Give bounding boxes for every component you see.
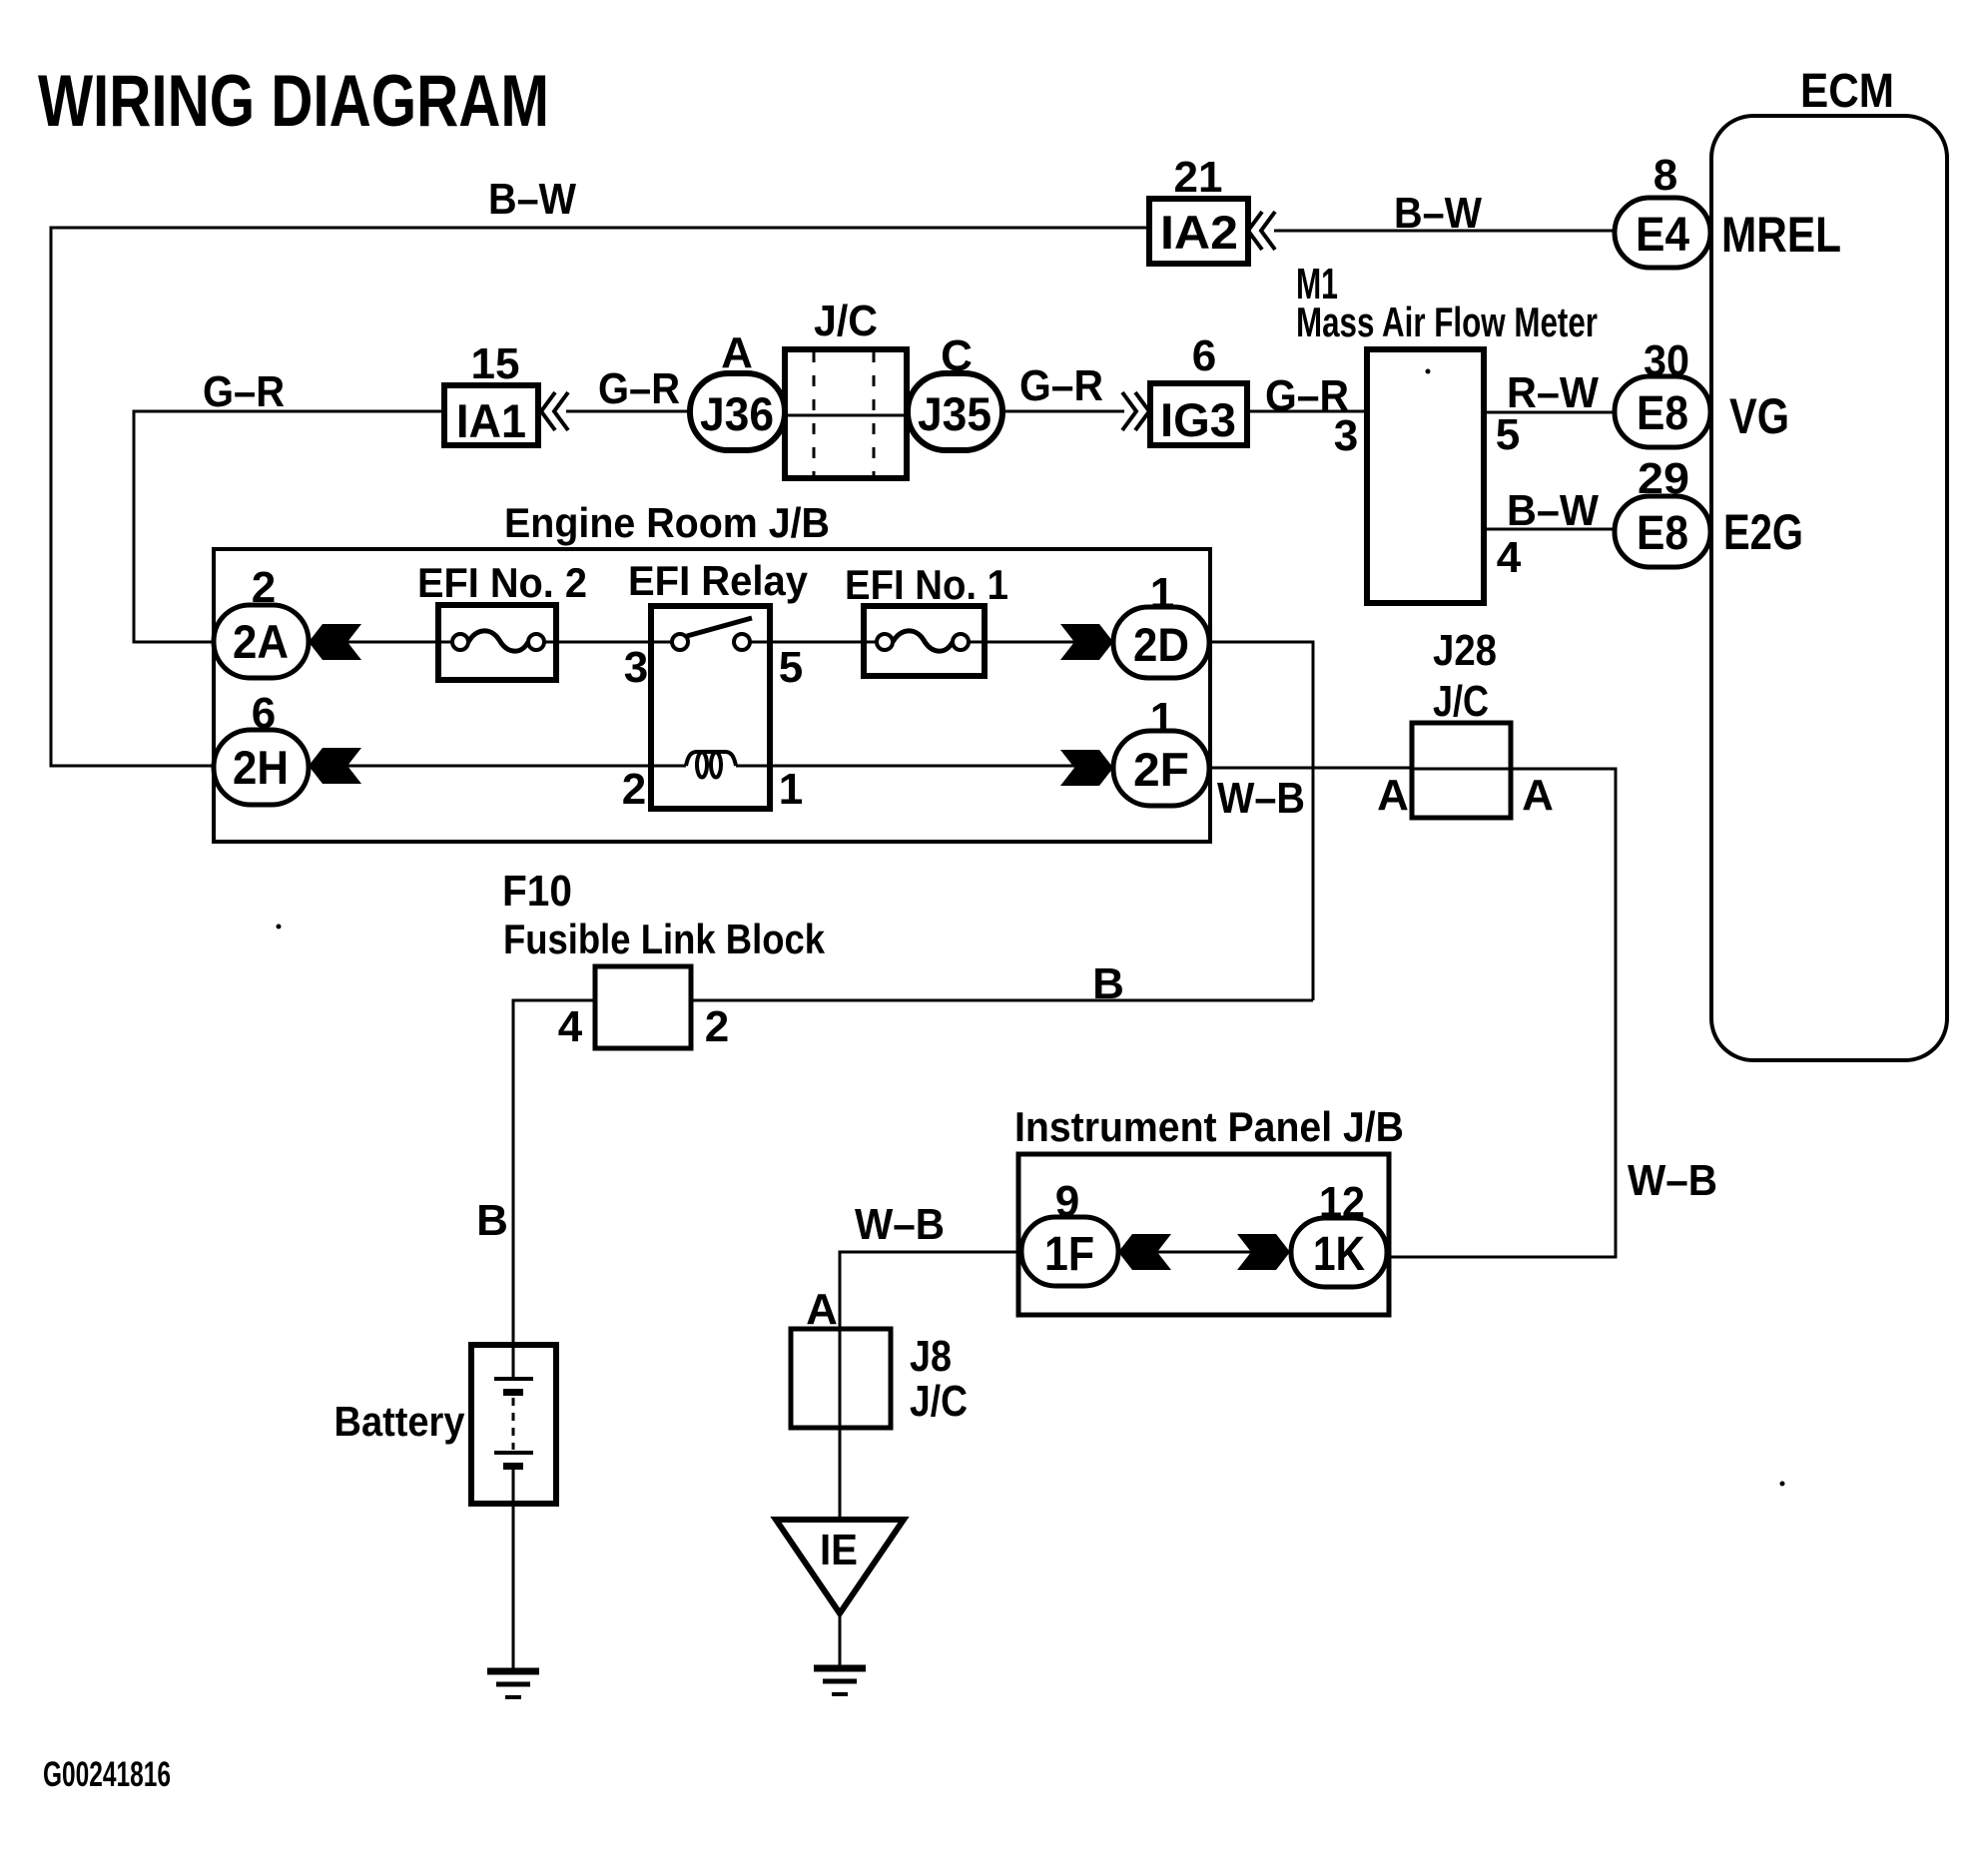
svg-text:Instrument Panel J/B: Instrument Panel J/B (1014, 1103, 1404, 1150)
svg-text:2: 2 (622, 765, 646, 814)
svg-text:Engine Room J/B: Engine Room J/B (504, 499, 830, 546)
svg-text:G–R: G–R (203, 367, 285, 416)
svg-text:IE: IE (820, 1526, 858, 1574)
svg-text:F10: F10 (502, 867, 572, 916)
svg-text:2F: 2F (1133, 743, 1189, 796)
svg-text:EFI No. 2: EFI No. 2 (417, 559, 587, 606)
svg-text:J/C: J/C (814, 297, 878, 345)
svg-text:MREL: MREL (1721, 207, 1841, 263)
svg-text:15: 15 (471, 339, 520, 388)
svg-text:C: C (941, 331, 973, 380)
svg-text:IG3: IG3 (1160, 393, 1236, 446)
svg-text:12: 12 (1319, 1178, 1365, 1227)
svg-text:2D: 2D (1133, 618, 1189, 671)
svg-text:W–B: W–B (1217, 774, 1305, 823)
svg-text:30: 30 (1644, 336, 1689, 385)
svg-text:1K: 1K (1313, 1228, 1365, 1281)
svg-text:IA1: IA1 (456, 394, 526, 447)
svg-text:G–R: G–R (1019, 361, 1103, 410)
svg-text:W–B: W–B (1628, 1156, 1717, 1205)
svg-text:B–W: B–W (1394, 189, 1482, 238)
svg-text:IA2: IA2 (1160, 206, 1238, 259)
svg-text:J36: J36 (700, 387, 774, 440)
svg-text:G00241816: G00241816 (43, 1755, 171, 1794)
svg-text:R–W: R–W (1507, 368, 1599, 417)
svg-text:A: A (1522, 771, 1554, 820)
svg-text:B: B (1092, 959, 1124, 1008)
svg-text:3: 3 (624, 643, 648, 692)
svg-text:1F: 1F (1044, 1228, 1094, 1281)
svg-text:8: 8 (1654, 151, 1677, 200)
svg-text:1: 1 (1150, 694, 1174, 743)
svg-text:EFI No. 1: EFI No. 1 (845, 561, 1008, 608)
svg-text:5: 5 (1496, 410, 1520, 459)
svg-text:6: 6 (1192, 331, 1216, 380)
svg-text:Battery: Battery (334, 1398, 466, 1445)
svg-text:B–W: B–W (488, 175, 576, 224)
svg-text:2: 2 (252, 563, 276, 612)
svg-text:1: 1 (1150, 569, 1174, 618)
svg-text:ECM: ECM (1800, 65, 1894, 118)
svg-text:1: 1 (779, 765, 803, 814)
svg-text:29: 29 (1638, 454, 1689, 503)
svg-text:4: 4 (1497, 533, 1522, 582)
svg-text:5: 5 (779, 643, 803, 692)
svg-text:J35: J35 (918, 387, 992, 440)
svg-text:J8: J8 (910, 1332, 952, 1381)
svg-text:A: A (721, 328, 753, 377)
svg-text:A: A (806, 1285, 838, 1334)
svg-text:J/C: J/C (910, 1377, 968, 1426)
svg-text:3: 3 (1334, 411, 1358, 460)
svg-text:E8: E8 (1637, 387, 1688, 440)
svg-text:E4: E4 (1636, 209, 1689, 262)
svg-text:J/C: J/C (1433, 677, 1489, 726)
svg-text:EFI Relay: EFI Relay (628, 557, 809, 604)
svg-text:Fusible Link Block: Fusible Link Block (503, 916, 826, 962)
svg-text:G–R: G–R (598, 364, 680, 413)
svg-text:VG: VG (1729, 388, 1789, 444)
svg-text:21: 21 (1174, 153, 1223, 202)
svg-text:2H: 2H (233, 741, 289, 794)
svg-text:4: 4 (558, 1002, 583, 1051)
svg-text:E2G: E2G (1723, 504, 1803, 560)
svg-text:2A: 2A (233, 615, 289, 668)
svg-text:B–W: B–W (1507, 486, 1599, 535)
svg-text:E8: E8 (1637, 507, 1688, 560)
svg-text:W–B: W–B (855, 1200, 945, 1249)
svg-text:6: 6 (252, 689, 276, 738)
svg-text:Mass Air Flow Meter: Mass Air Flow Meter (1296, 299, 1598, 345)
svg-text:WIRING DIAGRAM: WIRING DIAGRAM (38, 61, 549, 142)
svg-text:A: A (1377, 771, 1409, 820)
svg-text:2: 2 (705, 1002, 729, 1051)
svg-text:J28: J28 (1433, 626, 1497, 675)
svg-text:9: 9 (1055, 1177, 1079, 1226)
svg-text:B: B (476, 1196, 508, 1245)
